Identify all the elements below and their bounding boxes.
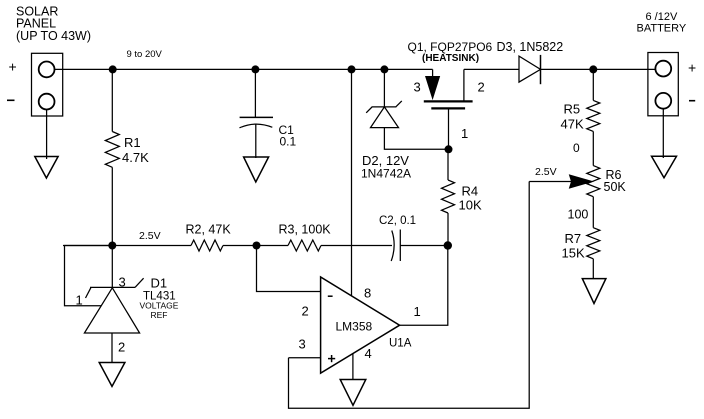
svg-text:2: 2 — [478, 80, 485, 95]
wiper arrow of R6 — [529, 175, 592, 188]
label 6 /12V BATTERY — [637, 11, 687, 35]
diode D3 1N5822 — [519, 55, 541, 84]
resistor R1 4.7K — [105, 132, 149, 168]
wire R4 bottom lead — [447, 213, 449, 246]
node junction R4/C2/output — [444, 241, 452, 249]
wire mid rail left — [63, 245, 191, 247]
svg-text:VOLTAGE: VOLTAGE — [140, 301, 179, 311]
node junction D2 top — [380, 65, 388, 73]
resistor R4 10K — [442, 180, 482, 213]
resistor R7 15K — [562, 228, 600, 261]
svg-text:1: 1 — [461, 126, 468, 141]
shunt reference D1 TL431 — [76, 275, 179, 355]
svg-text:4: 4 — [365, 346, 372, 361]
svg-text:6 /12V: 6 /12V — [646, 11, 678, 23]
svg-text:C2, 0.1: C2, 0.1 — [379, 215, 416, 227]
wire op-amp pin3 input — [289, 357, 321, 359]
svg-text:10K: 10K — [459, 198, 482, 213]
svg-text:R2, 47K: R2, 47K — [186, 223, 232, 237]
node junction gate/D2/R4 — [445, 145, 453, 153]
ground C1 — [244, 124, 269, 183]
node junction R2/R3/pin2 — [253, 242, 261, 250]
svg-text:1: 1 — [414, 304, 421, 319]
wire R1 bottom lead — [111, 167, 113, 245]
resistor R5 47K — [561, 100, 600, 131]
resistor R3 100K — [279, 223, 332, 252]
svg-text:9 to 20V: 9 to 20V — [127, 49, 163, 60]
wire R6 to R7 — [592, 197, 594, 228]
svg-text:R1: R1 — [124, 135, 141, 150]
svg-text:1: 1 — [76, 293, 83, 308]
wire op-amp pin 8 supply — [351, 69, 353, 296]
wire D1 cathode lead — [111, 246, 113, 288]
svg-text:+: + — [688, 60, 696, 76]
svg-text:REF: REF — [151, 310, 168, 320]
wire D1 loop left — [65, 246, 113, 306]
capacitor C2 0.1 — [379, 215, 416, 261]
svg-text:3: 3 — [119, 275, 126, 290]
svg-text:0.1: 0.1 — [280, 135, 297, 149]
svg-text:1N4742A: 1N4742A — [361, 167, 411, 181]
svg-text:R3, 100K: R3, 100K — [279, 223, 332, 237]
svg-text:R4: R4 — [462, 184, 479, 199]
svg-text:R5: R5 — [564, 102, 581, 117]
wire R7 bottom lead — [592, 259, 594, 279]
ground R7 — [582, 279, 606, 304]
wire D3 cathode to battery — [541, 68, 656, 70]
connector J1 solar panel — [7, 53, 63, 116]
svg-text:3: 3 — [299, 337, 306, 352]
svg-text:47K: 47K — [561, 117, 584, 132]
transistor Q1 FQP27P06 P-MOSFET — [414, 69, 485, 141]
wire D1 anode lead — [111, 333, 113, 363]
zener diode D2 1N4742A — [361, 69, 411, 180]
wire Q1 drain to D3 — [464, 68, 519, 70]
wire R4 top lead — [447, 149, 449, 180]
svg-text:BATTERY: BATTERY — [637, 23, 687, 35]
resistor R2 47K — [186, 223, 232, 252]
ground battery — [652, 109, 677, 178]
svg-text:0: 0 — [573, 141, 580, 155]
wire op-amp output pin1 — [400, 246, 448, 326]
op-amp U1A LM358 — [299, 277, 421, 373]
svg-text:+: + — [9, 59, 17, 75]
svg-text:8: 8 — [364, 286, 371, 301]
svg-text:2.5V: 2.5V — [535, 166, 557, 178]
ground op-amp pin4 — [340, 380, 366, 406]
svg-text:100: 100 — [568, 208, 589, 222]
potentiometer R6 50K — [587, 166, 627, 197]
svg-text:(HEATSINK): (HEATSINK) — [422, 53, 479, 64]
wire C2 to output node — [400, 245, 448, 247]
svg-text:2: 2 — [302, 304, 309, 319]
wire R5 top lead — [592, 69, 594, 100]
svg-text:3: 3 — [414, 80, 421, 95]
svg-text:U1A: U1A — [389, 338, 412, 350]
wire top rail left (solar + to Q1 source) — [54, 68, 433, 70]
node junction C1 top — [251, 65, 259, 73]
node junction op-amp V+ line — [348, 65, 356, 73]
wire op-amp pin4 ground lead — [352, 354, 354, 380]
wire D2 bottom to gate node — [384, 128, 448, 150]
node junction R1/D1/R2 — [108, 242, 116, 250]
node junction R5 top — [589, 65, 597, 73]
wire R1 top lead — [111, 69, 113, 131]
ground solar panel — [35, 110, 58, 179]
capacitor C1 0.1 — [240, 69, 297, 148]
wire Q1 gate lead — [448, 110, 450, 150]
connector J2 battery — [648, 53, 696, 116]
svg-text:D3, 1N5822: D3, 1N5822 — [497, 40, 564, 54]
svg-text:R7: R7 — [565, 231, 582, 246]
wire R2 to R3 — [223, 245, 288, 247]
label Q1, FQP27PO6 (HEATSINK) — [408, 40, 493, 64]
svg-text:15K: 15K — [562, 246, 585, 261]
wire op-amp pin2 input — [257, 246, 321, 292]
svg-text:50K: 50K — [604, 180, 627, 194]
wire pin3 feedback loop to wiper — [289, 182, 530, 409]
svg-text:(UP TO 43W): (UP TO 43W) — [16, 29, 91, 43]
svg-text:D1: D1 — [151, 276, 168, 291]
svg-text:2.5V: 2.5V — [139, 230, 161, 242]
wire R5 to R6 — [592, 131, 594, 165]
svg-text:4.7K: 4.7K — [122, 150, 149, 165]
label SOLAR PANEL (UP TO 43W) — [16, 5, 91, 44]
node junction at R1 top — [109, 65, 117, 73]
ground D1 — [99, 363, 125, 387]
wire R3 to C2 — [321, 245, 392, 247]
svg-text:LM358: LM358 — [336, 320, 373, 334]
svg-text:Q1, FQP27PO6: Q1, FQP27PO6 — [408, 40, 493, 54]
svg-text:2: 2 — [118, 340, 125, 355]
